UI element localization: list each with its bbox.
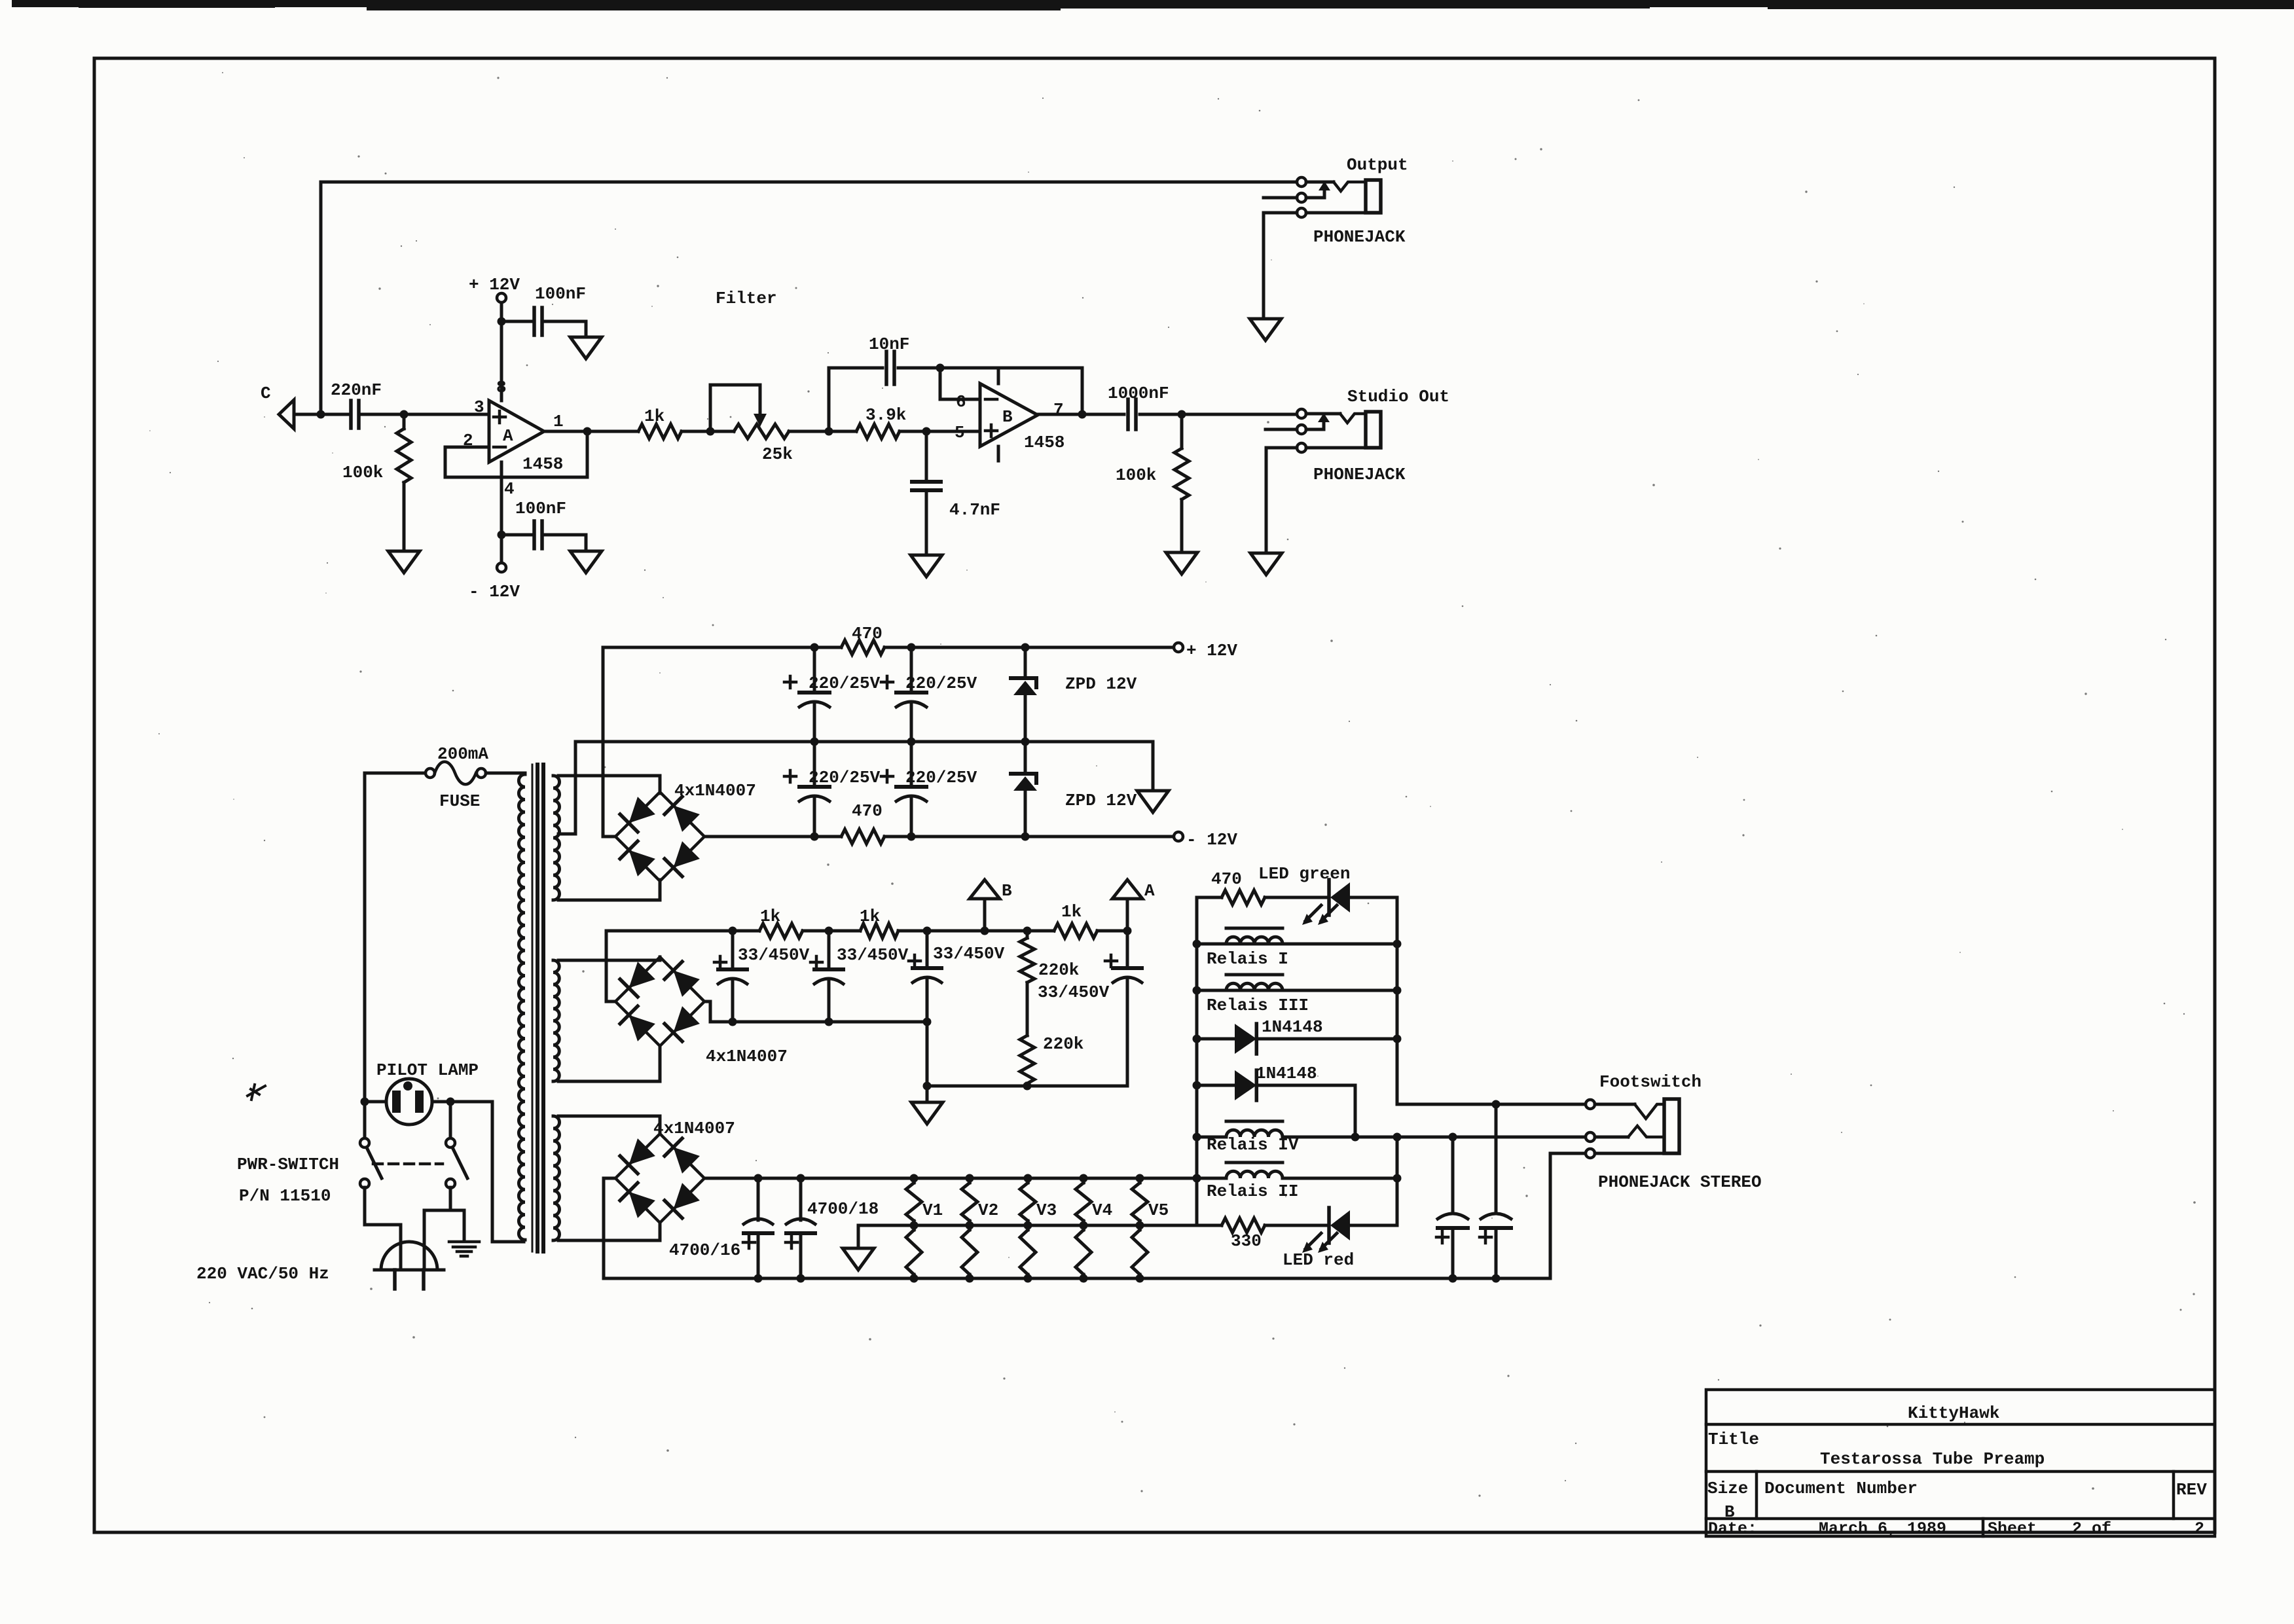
svg-text:1: 1 [553,412,564,431]
junction diode b left [1193,1081,1201,1090]
wire V+ to bypass cap [501,320,532,323]
wire output jack sleeve to ground [1262,213,1265,317]
junction diode a right [1393,1035,1402,1043]
ground V- bypass [570,551,602,573]
svg-text:V2: V2 [978,1200,998,1220]
LED green [1327,880,1331,915]
title block frame [1706,1390,2215,1536]
tube heater V5 [1132,1183,1148,1221]
diode 1N4148 b [1197,1084,1235,1087]
resistor 470 -12V rail [841,829,884,844]
ground 4.7nF [911,555,942,577]
svg-text:- 12V: - 12V [469,582,520,602]
ground V+ bypass [570,337,602,359]
svg-text:5: 5 [955,423,965,442]
node B arrow [983,899,987,931]
wire 100k to ground [403,482,406,551]
svg-text:+ 12V: + 12V [1186,641,1237,660]
junction heater mid V1 [910,1221,919,1230]
wire 1000nF to studio jack [1140,413,1297,416]
svg-text:220/25V: 220/25V [905,768,977,787]
plug mains [381,1242,437,1270]
resistor 3.9k [856,424,900,439]
zener ZPD 12V upper [1024,647,1027,678]
svg-text:33/450V: 33/450V [738,945,810,965]
junction pot left [706,427,715,436]
capacitor 4.7nF [912,480,941,484]
op-amp U1B 1458 [980,384,1038,446]
wire opamp B output [1038,413,1124,416]
LED red [1327,1208,1331,1243]
wire B+ rail [606,929,759,933]
svg-text:220/25V: 220/25V [809,674,881,693]
junction relais I right [1393,940,1402,948]
wire sec1 top lead [558,776,660,793]
svg-text:KittyHawk: KittyHawk [1908,1403,1999,1423]
svg-text:1000nF: 1000nF [1108,384,1169,403]
transformer T1 secondary 1 [553,776,560,900]
svg-text:ZPD 12V: ZPD 12V [1065,791,1137,810]
junction HV bus 1 [729,1018,737,1026]
junction relais IV cap [1449,1133,1457,1142]
wire feedback down to output [1081,368,1084,414]
svg-text:470: 470 [1211,869,1242,889]
capacitor 10nF feedback [884,352,888,384]
junction -rail zener2 [1021,833,1030,841]
wire relay right rail lower [1396,1137,1399,1225]
resistor 100k input [397,429,411,482]
svg-text:3.9k: 3.9k [865,405,906,425]
svg-text:4.7nF: 4.7nF [949,500,1000,520]
junction heater bottom 8 [1449,1274,1457,1283]
junction heater top 1 [754,1174,763,1183]
wire cap to opamp A +in [362,413,489,416]
svg-text:PHONEJACK STEREO: PHONEJACK STEREO [1598,1172,1762,1192]
tube heater V2 [962,1183,977,1221]
capacitor 220/25V d [910,742,913,787]
wire -12V rail [704,835,841,839]
junction B+ rail 5 [1023,927,1032,935]
junction relais IV left [1193,1133,1201,1142]
svg-text:ZPD 12V: ZPD 12V [1065,674,1137,694]
junction +rail cap1 [810,643,819,652]
junction relais I left [1193,940,1201,948]
switch S1 link [373,1163,443,1166]
svg-text:March 6, 1989: March 6, 1989 [1819,1519,1946,1538]
junction 0V zeners [1021,738,1030,746]
ground output jack [1250,319,1281,340]
svg-text:C: C [261,384,271,403]
junction output B [1078,410,1087,419]
tube heater V4 [1076,1183,1091,1221]
junction pot right [825,427,833,436]
capacitor 100nF V- bypass [532,521,536,549]
svg-text:B: B [1002,407,1013,427]
svg-text:220k: 220k [1043,1034,1083,1054]
svg-text:Relais IV: Relais IV [1207,1135,1299,1155]
junction heater bottom 5 [1024,1274,1032,1283]
svg-text:10nF: 10nF [869,334,909,354]
capacitor 220/25V b [910,647,913,693]
wire to 100k out [1180,414,1184,448]
capacitor 220/25V a [813,647,816,693]
svg-text:100nF: 100nF [535,284,586,304]
wire center bus ground stem [857,1225,860,1247]
fuse F1 200mA [426,768,435,778]
junction feedback tap [936,364,945,372]
svg-text:220k: 220k [1038,960,1079,980]
wire opamp A V+ pin 8 [500,302,503,401]
junction HV bus 3 [923,1018,932,1026]
junction heater mid V3 [1024,1221,1032,1230]
junction lamp right [446,1098,455,1106]
svg-text:220nF: 220nF [331,380,382,400]
node A arrow [1126,899,1129,931]
relay Relais III [1197,989,1397,992]
svg-text:Date:: Date: [1708,1519,1757,1538]
wire lamp to primary bottom [492,1102,524,1242]
junction heater bottom 6 [1080,1274,1088,1283]
svg-text:100k: 100k [1116,465,1156,485]
svg-text:4x1N4007: 4x1N4007 [674,781,756,801]
wire relay left rail [1195,897,1199,1225]
capacitor 33/450V b [828,931,831,969]
capacitor 220nF input [349,401,353,428]
resistor 220k upper [1026,931,1029,938]
junction HV bus 2 [825,1018,833,1026]
svg-text:470: 470 [852,624,883,643]
junction B+ rail 4 [981,927,989,935]
junction heater bottom 7 [1136,1274,1144,1283]
junction input node [317,410,325,419]
resistor 330 LED red [1222,1218,1265,1233]
terminal +12V [1174,643,1183,652]
wire rung1 [1197,896,1222,899]
junction relais II right [1393,1174,1402,1183]
svg-text:Size: Size [1707,1479,1748,1498]
svg-text:Studio Out: Studio Out [1347,387,1449,406]
junction B+ rail 2 [825,927,833,935]
capacitor 33/450V c [926,931,929,968]
svg-text:220 VAC/50 Hz: 220 VAC/50 Hz [196,1264,329,1284]
wire bridge2 minus [704,1001,927,1022]
wire lamp right lead [432,1100,492,1104]
junction heater top 5 [1024,1174,1032,1183]
scan speckles [149,72,2196,1497]
junction +rail zener1 [1021,643,1030,652]
capacitor 33/450V a [731,931,735,969]
wire V- to bypass cap [501,533,532,537]
svg-text:1k: 1k [1061,902,1082,922]
svg-text:2 of: 2 of [2072,1519,2111,1538]
junction relais III left [1193,986,1201,995]
wire right pole to plug [424,1187,450,1269]
svg-text:7: 7 [1053,400,1064,420]
junction opamp A output [583,427,592,436]
svg-text:3: 3 [474,397,484,417]
svg-text:Sheet: Sheet [1988,1519,2037,1538]
tube heater V3 [1020,1183,1036,1221]
wire HV 0V bus [927,1085,1127,1088]
ground 0V rail [1137,791,1169,812]
svg-text:2: 2 [2194,1519,2204,1538]
junction heater bottom 4 [966,1274,974,1283]
capacitor 1000nF output [1126,399,1130,429]
wire feedback rail up [828,368,831,431]
bridge rectifier 4x1N4007 top [615,792,704,881]
junction B+ rail 6 [1123,927,1132,935]
junction heater mid V5 [1136,1221,1144,1230]
junction -rail cap2 [907,833,916,841]
wire feedback rail left [829,367,883,370]
svg-text:Relais I: Relais I [1207,949,1288,969]
wire input node to top rail and output jack [321,182,1297,414]
wire sec1 bottom lead [558,880,660,900]
junction B+ rail 3 [923,927,932,935]
junction V+ bypass tap [498,317,506,326]
svg-text:4x1N4007: 4x1N4007 [653,1119,735,1138]
svg-text:4x1N4007: 4x1N4007 [706,1047,788,1066]
svg-text:25k: 25k [762,444,793,464]
wire feedback rail right [898,367,1082,370]
svg-text:LED green: LED green [1258,864,1350,884]
relay Relais II [1226,1171,1283,1178]
junction tip line cap [1492,1100,1501,1109]
junction heater bottom 3 [910,1274,919,1283]
svg-text:1458: 1458 [1024,433,1065,452]
capacitor 33/450V d [1126,931,1129,968]
junction relais II left [1193,1174,1201,1183]
junction 100k tap [400,410,409,419]
svg-text:FUSE: FUSE [439,791,480,811]
resistor 100k output [1174,448,1189,499]
svg-text:V5: V5 [1148,1200,1169,1220]
junction lamp left [361,1098,369,1106]
svg-text:LED red: LED red [1283,1250,1354,1270]
junction 0V cap1 [810,738,819,746]
svg-text:REV: REV [2176,1480,2207,1500]
svg-text:Filter: Filter [716,289,777,308]
svg-text:330: 330 [1231,1231,1262,1251]
svg-text:PHONEJACK: PHONEJACK [1313,227,1406,247]
svg-text:1k: 1k [760,907,780,926]
svg-text:1k: 1k [644,406,665,426]
connector J3 footswitch stereo jack [1586,1100,1595,1109]
wire heater bottom bus [604,1277,1550,1280]
mark scribble [247,1085,265,1100]
wire lamp left lead [365,1100,386,1104]
junction +rail cap2 [907,643,916,652]
resistor 1k B+ b [860,924,898,938]
wire input to cap [294,413,348,416]
resistor 1k B+ c [1054,924,1097,938]
wire opamp A feedback [445,431,587,477]
wire rung8 [1197,1224,1222,1227]
junction heater mid V4 [1080,1221,1088,1230]
capacitor 4700/16 b [799,1178,803,1220]
svg-text:4700/18: 4700/18 [807,1199,879,1219]
junction heater bottom 9 [1492,1274,1501,1283]
svg-text:P/N 11510: P/N 11510 [239,1186,331,1206]
wire bridge2 plus [606,931,615,1001]
ground input 100k [388,551,420,573]
node C input connector [279,400,294,429]
terminal +12V opamp A [497,293,506,302]
wire sec1 center tap [558,742,575,834]
svg-text:A: A [503,426,513,446]
bridge rectifier 4x1N4007 bottom [615,1134,704,1223]
svg-text:200mA: 200mA [437,744,488,764]
junction relais IV rail [1393,1133,1402,1142]
wire to 4.7nF [925,431,928,482]
svg-text:33/450V: 33/450V [933,944,1005,964]
wire switch right pole [449,1102,452,1139]
transformer T1 secondary 2 [553,960,559,1081]
svg-text:Title: Title [1708,1430,1759,1449]
wire sec2 bottom lead [558,1046,660,1081]
svg-text:220/25V: 220/25V [809,768,881,787]
wire heater top bus [704,1177,1226,1180]
svg-text:PHONEJACK: PHONEJACK [1313,465,1406,484]
wire sleeve riser [1550,1153,1586,1278]
relay Relais I [1197,943,1397,946]
svg-text:V1: V1 [922,1200,943,1220]
svg-text:Testarossa Tube Preamp: Testarossa Tube Preamp [1820,1449,2045,1469]
resistor 220k lower [1020,1036,1034,1083]
svg-text:100k: 100k [342,463,383,482]
ground 100k output [1166,552,1197,574]
junction heater top 8 [1193,1174,1201,1183]
svg-text:Relais III: Relais III [1207,996,1309,1015]
svg-text:33/450V: 33/450V [837,945,909,965]
svg-text:PWR-SWITCH: PWR-SWITCH [237,1155,339,1174]
svg-text:1458: 1458 [522,454,563,474]
junction relais IV diode [1351,1133,1360,1142]
svg-text:100nF: 100nF [515,499,566,518]
wire opamp A out to 1k [544,430,638,433]
svg-text:1N4148: 1N4148 [1256,1064,1317,1083]
capacitor footswitch a [1451,1137,1455,1211]
svg-text:A: A [1144,881,1155,901]
junction HV 0V a [923,1082,932,1091]
lamp pilot lamp [386,1079,432,1125]
connector J1 Output phonejack [1297,177,1306,187]
wire bypass cap to ground [545,321,586,337]
svg-text:Output: Output [1347,155,1408,175]
resistor 470 +12V rail [841,640,884,655]
junction diode a left [1193,1035,1201,1043]
svg-text:4: 4 [504,479,515,499]
ground HV [911,1102,943,1124]
transformer T1 core [532,765,534,1252]
capacitor 4700/16 a [757,1178,760,1220]
svg-text:Document Number: Document Number [1764,1479,1918,1498]
ground heater center [843,1248,874,1270]
resistor 1k B+ a [759,924,803,938]
junction 4.7nF tap [922,427,931,436]
transformer T1 primary [519,774,525,1240]
wire sec3 top lead [558,1116,660,1134]
wire mains line A [365,773,426,1139]
capacitor 220/25V c [813,742,816,787]
wire 3.9k to pin 5 [900,430,980,433]
terminal -12V [1174,832,1183,841]
svg-text:Relais II: Relais II [1207,1182,1298,1201]
junction relais III right [1393,986,1402,995]
earth ground mains [449,1240,479,1244]
svg-text:V3: V3 [1036,1200,1057,1220]
wire left pole to plug [365,1187,401,1269]
resistor 470 LED green [1222,890,1265,905]
svg-text:33/450V: 33/450V [1038,983,1110,1002]
wire 0V rail [575,742,1153,789]
junction heater bottom 2 [797,1274,805,1283]
bridge rectifier 4x1N4007 middle [615,957,704,1046]
wire fuse to transformer [486,772,525,775]
diode 1N4148 a [1197,1038,1235,1041]
wire bridge3 minus [604,1178,615,1278]
junction -rail cap1 [810,833,819,841]
wire opamp A V- pin 4 [500,462,503,564]
wire bypass cap 2 to ground [545,535,586,551]
svg-text:220/25V: 220/25V [905,674,977,693]
svg-text:4700/16: 4700/16 [669,1240,740,1260]
capacitor footswitch b [1495,1104,1498,1211]
relay Relais IV [1197,1136,1226,1139]
transformer T1 secondary 3 [553,1116,560,1240]
wire sec3 bottom lead [558,1223,660,1240]
svg-text:V4: V4 [1092,1200,1112,1220]
wire +12V rail [603,646,841,649]
wire heater center bus [858,1224,1197,1227]
svg-text:B: B [1002,881,1012,901]
resistor 1k filter [638,424,682,439]
junction B+ rail 1 [729,927,737,935]
svg-text:Footswitch: Footswitch [1599,1072,1702,1092]
svg-text:1k: 1k [860,907,880,926]
wire to earth [450,1210,464,1240]
zener ZPD 12V lower [1024,742,1027,774]
svg-text:1N4148: 1N4148 [1262,1017,1323,1037]
junction V- bypass tap [498,531,506,539]
ground studio jack [1250,553,1282,575]
wire relay right rail upper [1397,897,1586,1104]
wire 4.7nF to ground [925,490,928,555]
scan bar top edge [12,0,2294,7]
junction 0V cap2 [907,738,916,746]
wire pot to 3.9k [789,430,856,433]
junction heater mid V2 [966,1221,974,1230]
svg-text:+ 12V: + 12V [469,275,520,295]
op-amp U1A 1458 [489,401,544,462]
wire feedback to pin 6 [940,368,980,399]
junction heater top 6 [1080,1174,1088,1183]
switch S1 right pole [446,1138,455,1147]
wire diode b to relais IV rung [1354,1085,1357,1137]
junction heater top 4 [966,1174,974,1183]
wire sec2 top lead [558,957,660,960]
svg-text:- 12V: - 12V [1186,830,1237,850]
wire studio jack sleeve to ground [1265,448,1268,552]
junction 100k out tap [1178,410,1186,419]
wire 100k top [403,414,406,429]
svg-text:PILOT LAMP: PILOT LAMP [376,1060,479,1080]
svg-text:470: 470 [852,801,883,821]
potentiometer 25k [734,424,789,439]
wire 100k out to ground [1180,499,1184,552]
junction heater top 3 [910,1174,919,1183]
terminal -12V opamp A [497,563,506,572]
